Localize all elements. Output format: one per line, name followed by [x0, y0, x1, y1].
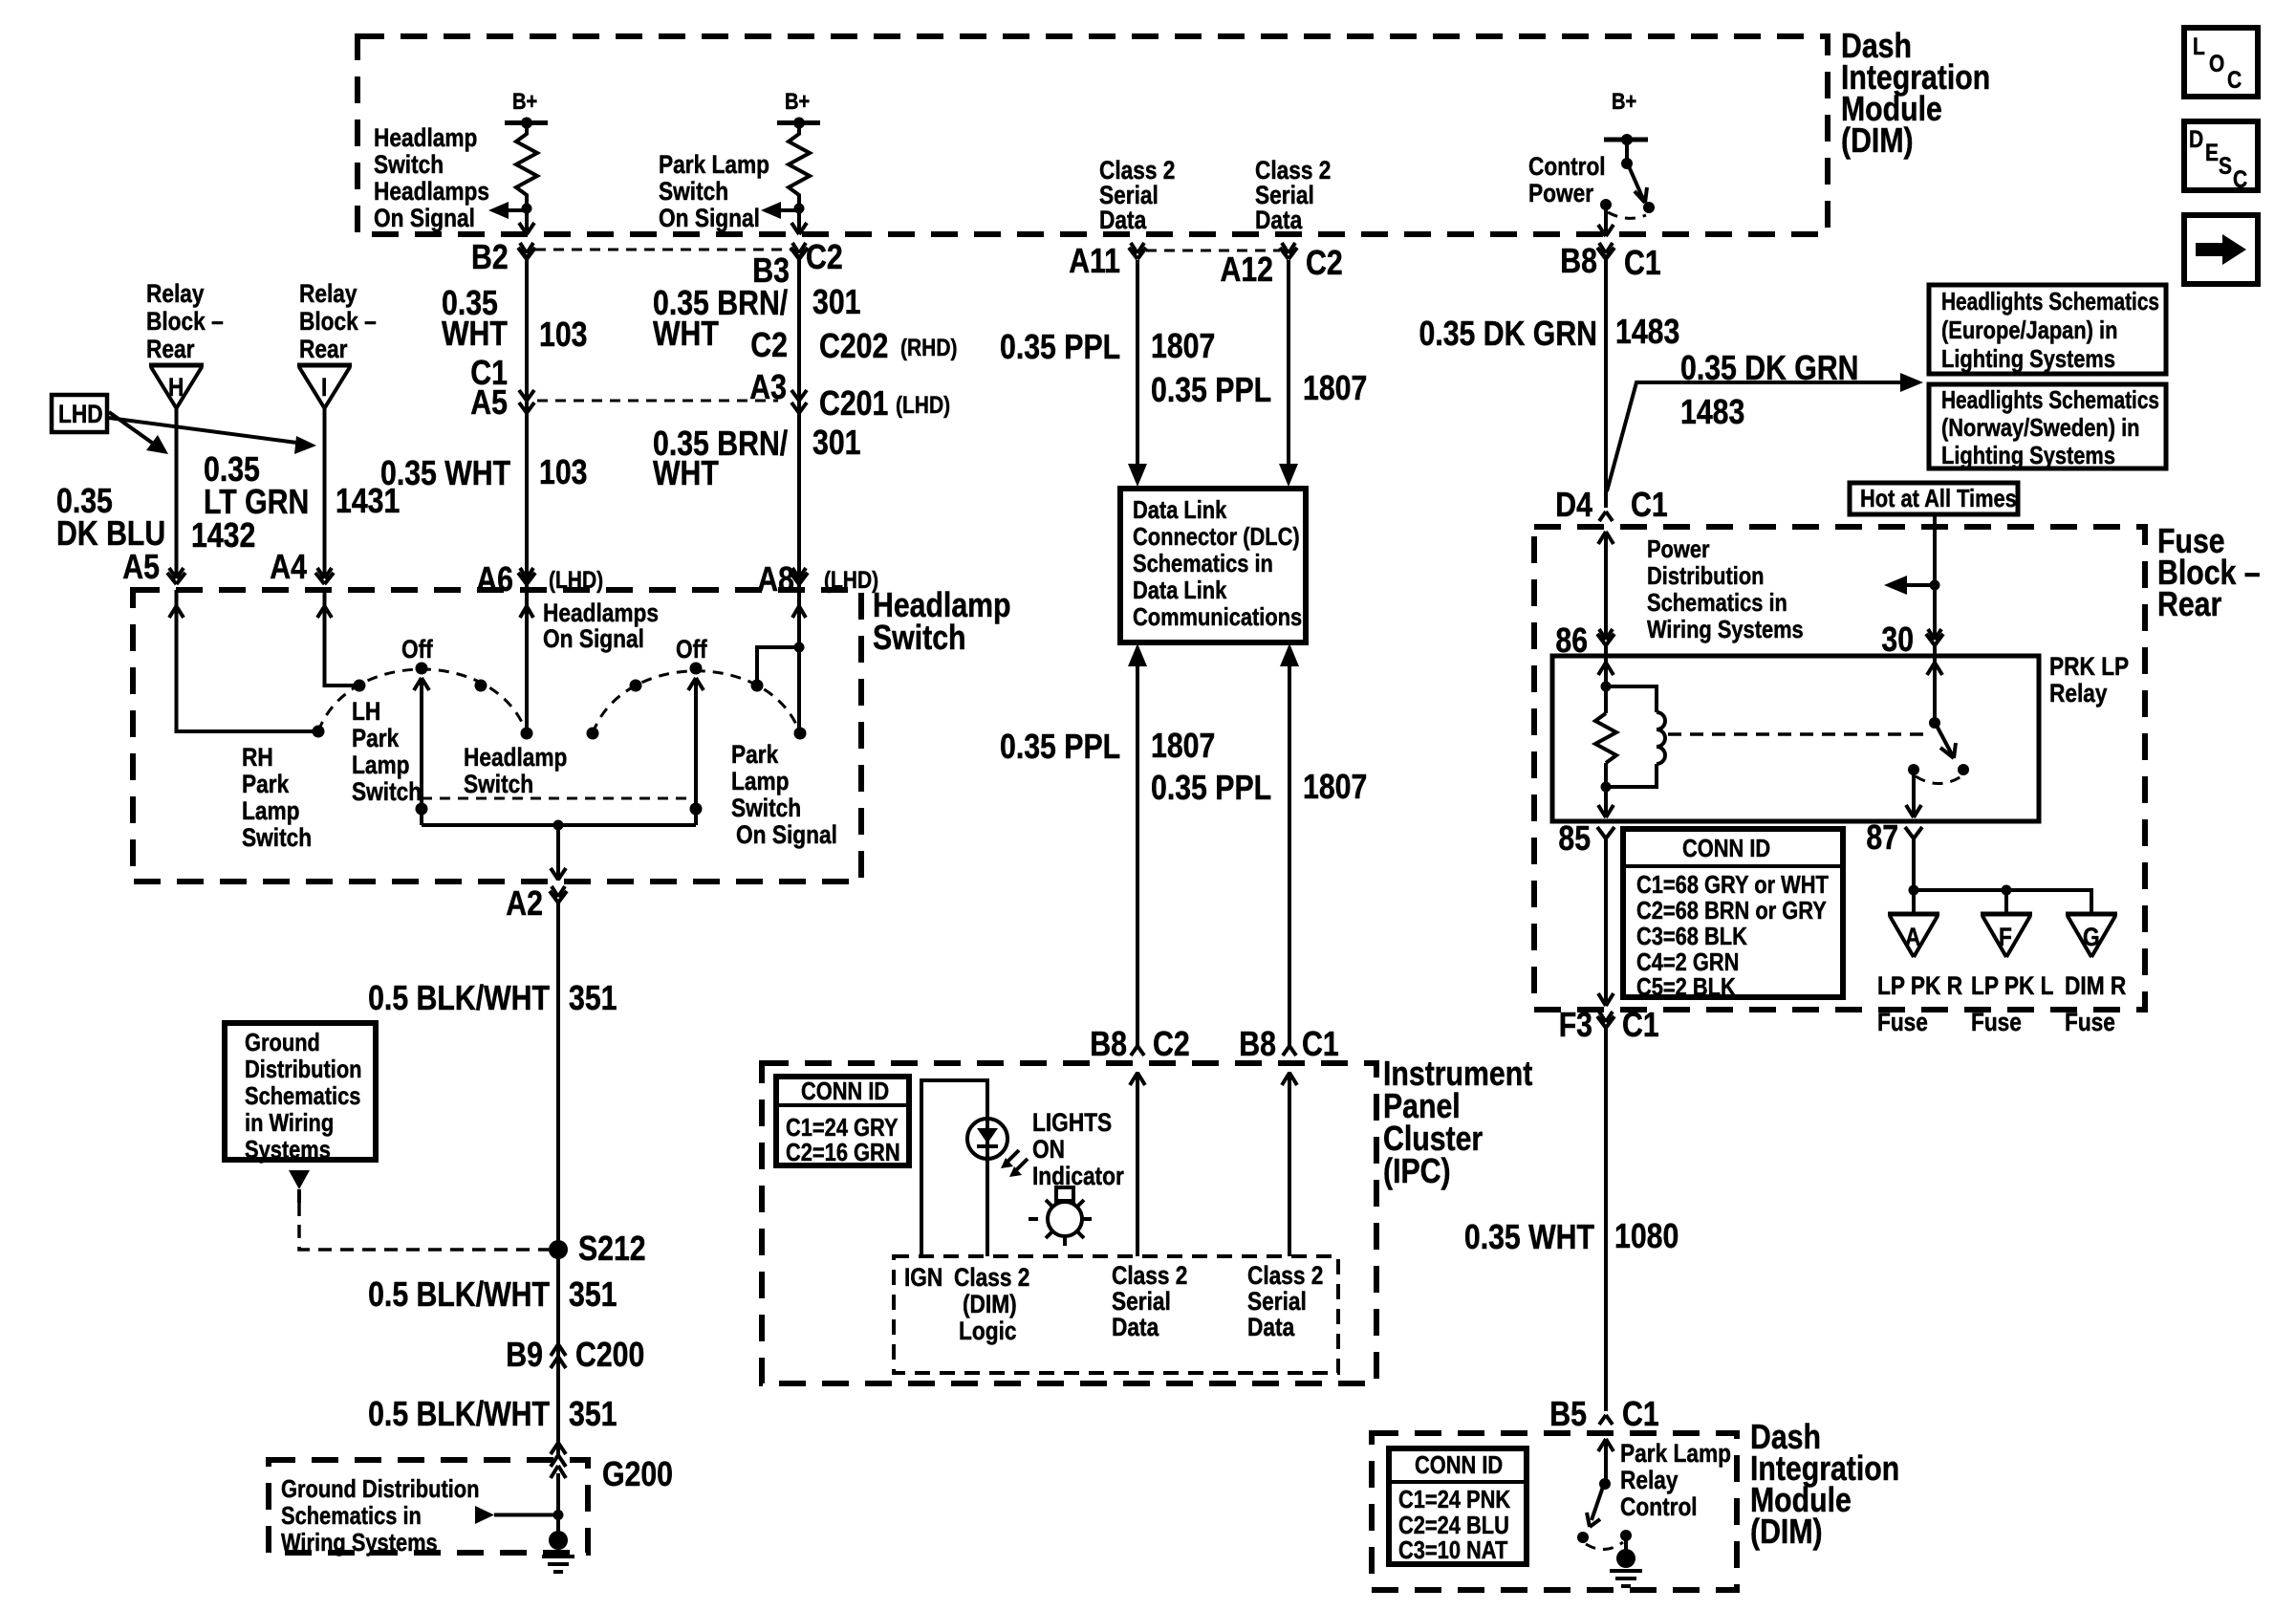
- svg-text:(Europe/Japan) in: (Europe/Japan) in: [1941, 316, 2117, 344]
- svg-text:C1=68 GRY or WHT: C1=68 GRY or WHT: [1636, 870, 1829, 899]
- svg-text:C2=68 BRN or GRY: C2=68 BRN or GRY: [1636, 896, 1827, 925]
- svg-text:301: 301: [812, 423, 861, 462]
- label A4 pin (I wire): [270, 547, 307, 586]
- entry arrow D4 inside fuse block: [1598, 532, 1614, 640]
- svg-text:Off: Off: [401, 635, 434, 664]
- svg-text:Off: Off: [676, 635, 708, 664]
- svg-text:PRK LP: PRK LP: [2049, 652, 2129, 681]
- svg-text:LHD: LHD: [58, 400, 103, 428]
- B+ label 3: [1612, 89, 1636, 115]
- relay output wire: [1906, 770, 1921, 817]
- label LP PK L Fuse: [1971, 971, 2054, 1036]
- svg-text:1432: 1432: [191, 515, 255, 555]
- label 0.35 WHT (circuit 103 upper): [442, 283, 508, 353]
- svg-text:(IPC): (IPC): [1383, 1151, 1451, 1190]
- svg-text:S212: S212: [578, 1229, 646, 1268]
- connector C1/A5 double chevron: [519, 390, 534, 413]
- svg-text:0.35 DK GRN: 0.35 DK GRN: [1680, 348, 1859, 387]
- Headlights Schematics (Europe/Japan) box: [1929, 285, 2166, 374]
- label 0.35 BRN/WHT lower: [653, 424, 788, 492]
- svg-text:Headlamp: Headlamp: [374, 123, 477, 152]
- LHD arrow to I wire: [109, 418, 316, 454]
- dashed run to S212: [299, 1203, 549, 1250]
- svg-text:Headlamp: Headlamp: [464, 743, 567, 772]
- label A5 pin (H wire): [122, 547, 160, 586]
- label Park Lamp Switch On Signal: [659, 150, 769, 232]
- Data Link Connector reference box: [1120, 489, 1306, 642]
- label 301 upper: [812, 282, 861, 321]
- svg-text:Park: Park: [731, 740, 779, 769]
- Hot at All Times box: [1850, 483, 2018, 514]
- svg-text:C1: C1: [1624, 243, 1661, 282]
- label 1432: [191, 515, 255, 555]
- wire A12 to DLC: [1279, 260, 1298, 487]
- svg-text:Data Link: Data Link: [1133, 576, 1227, 604]
- svg-text:E: E: [2205, 140, 2219, 166]
- svg-text:0.5 BLK/WHT: 0.5 BLK/WHT: [368, 1394, 550, 1433]
- park-lamp-on-signal left arrow: [761, 202, 799, 219]
- svg-text:Fuse: Fuse: [2065, 1008, 2115, 1036]
- svg-text:Class 2: Class 2: [1247, 1261, 1323, 1290]
- svg-text:103: 103: [539, 315, 588, 354]
- svg-text:103: 103: [539, 452, 588, 491]
- relay resistor: [1595, 713, 1616, 763]
- label 301 lower: [812, 423, 861, 462]
- label 0.5 BLK/WHT 351 (2): [368, 1274, 617, 1314]
- label 1483 (branch): [1680, 392, 1744, 431]
- svg-text:Switch: Switch: [731, 794, 801, 822]
- svg-text:Lamp: Lamp: [352, 751, 410, 779]
- svg-text:Ground: Ground: [245, 1028, 320, 1056]
- label 0.35 WHT 1080: [1464, 1216, 1679, 1256]
- right rotary arc (park lamp switch): [593, 671, 800, 733]
- connector B2/C1 at DIM output: [518, 243, 535, 259]
- connector A6 at headlamp switch: [518, 568, 535, 584]
- svg-text:in Wiring: in Wiring: [245, 1108, 334, 1137]
- label Class 2 (DIM) Logic: [954, 1263, 1029, 1345]
- connector B9/C200: [551, 1344, 566, 1368]
- svg-text:0.35 DK GRN: 0.35 DK GRN: [1419, 314, 1598, 353]
- label 0.35 DK GRN 1483: [1419, 312, 1680, 353]
- svg-text:Distribution: Distribution: [1647, 561, 1765, 590]
- svg-text:30: 30: [1881, 620, 1914, 659]
- svg-text:B9: B9: [506, 1335, 543, 1374]
- DESC reference box: [2184, 121, 2258, 193]
- label B8 C1 top: [1560, 241, 1660, 282]
- G200 box text: [281, 1474, 480, 1557]
- label 0.35 PPL 1807 (lower-right pair): [1151, 767, 1367, 807]
- wire from I to A4: [323, 408, 327, 578]
- right-arrow reference box: [2184, 215, 2258, 284]
- ground symbol bottom DIM: [1610, 1535, 1642, 1586]
- wire to box edge with exit chevron 2: [791, 208, 807, 234]
- svg-text:LT GRN: LT GRN: [204, 482, 309, 521]
- label Off right: [676, 635, 708, 664]
- entry chevron A8 wire: [792, 606, 806, 618]
- svg-text:Connector (DLC): Connector (DLC): [1133, 522, 1300, 551]
- label PRK LP Relay: [2049, 652, 2129, 708]
- label C1/A5 pins: [470, 353, 508, 422]
- splice S212: [549, 1240, 568, 1259]
- resistor (park lamp switch pull-up): [789, 122, 810, 207]
- svg-text:1483: 1483: [1680, 392, 1744, 431]
- svg-text:LIGHTS: LIGHTS: [1032, 1108, 1112, 1137]
- svg-text:0.35 PPL: 0.35 PPL: [1151, 370, 1271, 409]
- relay contacts: [1908, 764, 1969, 784]
- label Class 2 Serial Data (right): [1247, 1261, 1323, 1341]
- svg-text:351: 351: [569, 978, 617, 1017]
- Headlamp Switch dashed box: [133, 590, 861, 882]
- lamp symbol: [1029, 1187, 1092, 1246]
- svg-text:Distribution: Distribution: [245, 1055, 362, 1083]
- relay block rear label H: [146, 279, 224, 363]
- label LH Park Lamp Switch: [352, 697, 422, 806]
- connector 86: [1555, 620, 1614, 660]
- fuse triangle G: [2066, 914, 2117, 957]
- relay switch 30 entry arrow: [1927, 645, 1942, 723]
- svg-text:Lamp: Lamp: [731, 767, 790, 795]
- relay block rear triangle H: [149, 365, 204, 408]
- svg-text:Lighting Systems: Lighting Systems: [1941, 441, 2115, 469]
- label 0.35 PPL 1807 (upper pair): [1000, 326, 1215, 366]
- svg-text:Relay: Relay: [1620, 1466, 1679, 1494]
- connector B8/C1 at IPC: [1239, 1024, 1338, 1063]
- svg-text:WHT: WHT: [442, 314, 508, 353]
- svg-text:On Signal: On Signal: [374, 204, 475, 232]
- svg-text:1080: 1080: [1614, 1216, 1679, 1255]
- svg-text:CONN ID: CONN ID: [801, 1077, 889, 1105]
- connector B8/C1 top: [1597, 243, 1614, 259]
- svg-text:C1: C1: [1622, 1005, 1659, 1044]
- svg-text:B8: B8: [1560, 241, 1597, 280]
- connector B8/C2 at IPC: [1090, 1024, 1189, 1063]
- svg-text:(DIM): (DIM): [1750, 1512, 1823, 1551]
- label B9 C200: [506, 1335, 644, 1374]
- svg-text:CONN ID: CONN ID: [1415, 1450, 1503, 1479]
- svg-text:C3=10 NAT: C3=10 NAT: [1398, 1535, 1507, 1564]
- svg-text:Control: Control: [1528, 152, 1606, 181]
- label S212: [578, 1229, 646, 1268]
- Fuse Block title: [2157, 521, 2261, 623]
- connector at G200: [551, 1443, 566, 1467]
- svg-text:Park Lamp: Park Lamp: [659, 150, 769, 179]
- B+ feed bar 1: [505, 118, 548, 129]
- label A2: [506, 883, 543, 923]
- branch wire to headlights schematics: [1607, 373, 1923, 491]
- svg-text:C: C: [2233, 166, 2247, 193]
- svg-text:Hot at All Times: Hot at All Times: [1860, 484, 2017, 512]
- svg-text:B+: B+: [785, 89, 810, 115]
- label C2 top: [806, 237, 843, 276]
- entry arrow B8/C2 inside IPC: [1130, 1072, 1145, 1256]
- control power switch: [1600, 140, 1655, 218]
- label 0.35 DK BLU: [56, 481, 165, 553]
- svg-text:Headlamps: Headlamps: [374, 177, 489, 206]
- junction dot below resistor 2: [794, 204, 805, 214]
- wire B2 to headlamp-on contact: [525, 254, 529, 733]
- wire A11 to DLC: [1128, 260, 1147, 487]
- svg-text:Control: Control: [1620, 1492, 1698, 1521]
- svg-text:F: F: [1999, 923, 2012, 951]
- wire I inside to LH contact: [325, 590, 360, 686]
- IPC CONN ID table: [776, 1077, 909, 1166]
- label 1431: [336, 481, 400, 520]
- label Park Lamp Switch On Signal: [731, 740, 837, 849]
- svg-text:(LHD): (LHD): [896, 392, 950, 419]
- svg-text:85: 85: [1558, 818, 1591, 858]
- wire B3 to park contact: [797, 254, 801, 733]
- svg-text:1807: 1807: [1303, 368, 1367, 407]
- svg-text:0.35 PPL: 0.35 PPL: [1000, 727, 1120, 766]
- label IGN: [904, 1263, 942, 1292]
- svg-text:1807: 1807: [1151, 326, 1215, 365]
- svg-text:Ground Distribution: Ground Distribution: [281, 1474, 480, 1503]
- svg-text:Relay: Relay: [146, 279, 205, 308]
- IGN / LED bracket wires: [921, 1080, 987, 1256]
- svg-text:C1=24 PNK: C1=24 PNK: [1398, 1485, 1510, 1513]
- feed branch left arrow: [1884, 576, 1935, 595]
- svg-text:Wiring Systems: Wiring Systems: [1647, 615, 1804, 643]
- svg-text:C1: C1: [1302, 1024, 1339, 1063]
- svg-text:1483: 1483: [1615, 312, 1679, 351]
- svg-text:C2=16 GRN: C2=16 GRN: [786, 1138, 900, 1166]
- fuse block CONN ID table: [1623, 829, 1843, 1001]
- label 0.35 WHT (circuit 103 lower): [380, 453, 510, 492]
- relay actuation dashed link: [1668, 732, 1925, 736]
- svg-text:Switch: Switch: [242, 823, 312, 852]
- label Headlamp Switch inside: [464, 743, 567, 798]
- fuse triangle A: [1888, 914, 1939, 957]
- svg-text:I: I: [321, 373, 327, 402]
- svg-text:351: 351: [569, 1394, 617, 1433]
- svg-text:Indicator: Indicator: [1032, 1162, 1124, 1190]
- left rotary arc (headlamp switch): [318, 669, 527, 733]
- svg-text:Lamp: Lamp: [242, 796, 300, 825]
- wiper common bus: [422, 820, 696, 831]
- svg-text:Serial: Serial: [1112, 1287, 1171, 1316]
- svg-text:D4: D4: [1555, 485, 1592, 524]
- svg-text:C2: C2: [1306, 243, 1343, 282]
- svg-text:C2: C2: [750, 325, 788, 364]
- resistor (headlamp switch pull-up): [516, 122, 537, 207]
- svg-text:L: L: [2193, 33, 2205, 60]
- svg-text:Switch: Switch: [873, 618, 966, 657]
- svg-text:1807: 1807: [1151, 726, 1215, 765]
- B+ label 1: [512, 89, 537, 115]
- svg-text:Power: Power: [1528, 179, 1594, 207]
- label Class 2 Serial Data (A11): [1099, 156, 1175, 234]
- svg-text:Switch: Switch: [374, 150, 444, 179]
- A8 branch to park contact: [757, 642, 805, 686]
- svg-text:Headlamps: Headlamps: [543, 599, 659, 627]
- svg-text:(RHD): (RHD): [900, 335, 958, 361]
- label 0.35 DK GRN (branch): [1680, 348, 1859, 387]
- connector A11: [1129, 243, 1146, 259]
- relay block rear triangle I: [297, 365, 352, 408]
- LED lights-on indicator: [967, 1119, 1028, 1177]
- svg-text:LP PK L: LP PK L: [1971, 971, 2054, 1000]
- connector B5/C1: [1549, 1394, 1658, 1433]
- label Class 2 Serial Data (A12): [1255, 156, 1331, 234]
- svg-text:A5: A5: [122, 547, 160, 586]
- svg-text:Relay: Relay: [299, 279, 357, 308]
- fuse triangle F: [1981, 914, 2032, 957]
- relay block rear label I: [299, 279, 377, 363]
- label A3/C201 (LHD): [749, 367, 950, 423]
- label A12: [1221, 250, 1274, 289]
- connector A2: [550, 886, 567, 903]
- DIM title text: [1841, 26, 1990, 160]
- svg-text:Switch: Switch: [659, 177, 728, 206]
- wire 87 to fuses: [1909, 838, 2092, 914]
- bottom DIM title: [1750, 1417, 1899, 1551]
- headlamp switch wiper: [414, 678, 429, 825]
- svg-text:0.35 PPL: 0.35 PPL: [1151, 768, 1271, 807]
- svg-text:IGN: IGN: [904, 1263, 942, 1292]
- label Headlamp Switch Headlamps On Signal: [374, 123, 489, 232]
- svg-text:0.35 WHT: 0.35 WHT: [1464, 1217, 1594, 1256]
- G200 dashed box: [269, 1460, 588, 1553]
- svg-text:Headlights Schematics: Headlights Schematics: [1941, 385, 2159, 414]
- LHD callout box: [52, 395, 107, 432]
- svg-text:WHT: WHT: [653, 453, 719, 492]
- A2 exit wire with chevron: [551, 825, 566, 881]
- left arc contact dots: [313, 663, 533, 740]
- svg-text:RH: RH: [242, 743, 273, 772]
- svg-text:B+: B+: [512, 89, 537, 115]
- svg-text:0.35 WHT: 0.35 WHT: [380, 453, 510, 492]
- hot at all times feed wire: [1930, 514, 1940, 636]
- label C2/C202 (RHD): [750, 325, 957, 365]
- headlamps-on-signal left arrow: [488, 202, 527, 219]
- label LP PK R Fuse: [1877, 971, 1962, 1036]
- relay switch arm: [1929, 717, 1956, 758]
- wire H inside to RH contact: [177, 590, 319, 731]
- svg-text:Fuse: Fuse: [1877, 1008, 1928, 1036]
- label G200: [602, 1454, 673, 1493]
- control power wire to edge with exit chevron: [1598, 205, 1614, 236]
- svg-text:H: H: [168, 373, 184, 402]
- svg-text:Data Link: Data Link: [1133, 495, 1227, 524]
- svg-text:C1: C1: [1622, 1394, 1659, 1433]
- label A8 pin: [757, 559, 878, 599]
- connector A4 at headlamp switch: [315, 568, 334, 584]
- label 0.35 LT GRN: [204, 449, 309, 521]
- label A11: [1069, 241, 1120, 280]
- control power B+ bar: [1604, 134, 1648, 145]
- svg-text:C3=68 BLK: C3=68 BLK: [1636, 922, 1747, 950]
- Headlamp Switch title: [873, 585, 1011, 657]
- svg-text:(DIM): (DIM): [963, 1290, 1017, 1318]
- svg-text:1431: 1431: [336, 481, 400, 520]
- svg-text:LH: LH: [352, 697, 380, 726]
- ground pointer arrow inside G200: [475, 1506, 564, 1524]
- svg-text:Rear: Rear: [299, 335, 348, 363]
- label 0.35 PPL 1807 (lower-left pair): [1000, 726, 1215, 766]
- junction dot below resistor 1: [522, 204, 532, 214]
- label A6 pin: [476, 559, 603, 599]
- svg-text:A5: A5: [470, 382, 508, 422]
- coil wire 86 entry arrow: [1598, 645, 1614, 713]
- svg-text:Switch: Switch: [352, 777, 422, 806]
- label 0.5 BLK/WHT 351 (1): [368, 978, 617, 1017]
- svg-text:Block –: Block –: [299, 307, 377, 336]
- dashed link A11-A12: [1146, 250, 1280, 252]
- svg-text:B8: B8: [1239, 1024, 1276, 1063]
- svg-text:B8: B8: [1090, 1024, 1127, 1063]
- svg-text:C: C: [2227, 67, 2242, 94]
- svg-text:C201: C201: [819, 383, 888, 423]
- label 103 lower: [539, 452, 588, 491]
- svg-text:Lighting Systems: Lighting Systems: [1941, 344, 2115, 373]
- connector A5 at headlamp switch: [167, 568, 185, 584]
- svg-text:B2: B2: [471, 237, 509, 276]
- svg-text:Logic: Logic: [959, 1317, 1017, 1345]
- svg-text:On Signal: On Signal: [659, 204, 760, 232]
- svg-text:Data: Data: [1112, 1313, 1159, 1341]
- svg-text:C2: C2: [806, 237, 843, 276]
- relay coil: [1606, 686, 1665, 787]
- LOC reference box: [2184, 28, 2258, 97]
- svg-text:87: 87: [1866, 817, 1898, 857]
- svg-text:Class 2: Class 2: [954, 1263, 1029, 1292]
- label 0.35 BRN/WHT upper: [653, 283, 788, 353]
- svg-text:LP PK R: LP PK R: [1877, 971, 1962, 1000]
- dashed link A5-C201: [537, 400, 778, 403]
- svg-text:A: A: [1905, 923, 1920, 951]
- connector D4/C1: [1555, 485, 1667, 524]
- label 0.35 PPL 1807 (second pair): [1151, 368, 1367, 409]
- svg-text:Park: Park: [352, 724, 400, 752]
- svg-text:Data: Data: [1099, 206, 1147, 234]
- svg-text:0.5 BLK/WHT: 0.5 BLK/WHT: [368, 1274, 550, 1314]
- PRK LP Relay box: [1552, 656, 2039, 821]
- svg-text:C1: C1: [1631, 485, 1668, 524]
- svg-text:Class 2: Class 2: [1112, 1261, 1187, 1290]
- LHD arrow to H wire: [109, 412, 168, 454]
- label Control Power: [1528, 152, 1606, 207]
- ground entry arrow: [551, 1466, 566, 1541]
- connector A8 at headlamp switch: [791, 568, 808, 584]
- bottom DIM CONN ID table: [1389, 1448, 1527, 1564]
- entry chevron I wire: [317, 606, 332, 618]
- wire to box edge with exit chevron: [519, 208, 534, 234]
- svg-text:O: O: [2209, 51, 2224, 77]
- svg-text:B5: B5: [1549, 1394, 1587, 1433]
- label 103 upper: [539, 315, 588, 354]
- wire 85 to F3: [1598, 838, 1614, 1006]
- svg-text:Park: Park: [242, 770, 290, 798]
- svg-text:DIM R: DIM R: [2065, 971, 2126, 1000]
- entry chevron H wire: [169, 606, 184, 618]
- label 0.5 BLK/WHT 351 (3): [368, 1394, 617, 1433]
- svg-text:Schematics in: Schematics in: [1133, 549, 1273, 577]
- mechanical link dashed: [422, 797, 696, 800]
- svg-text:Data: Data: [1255, 206, 1303, 234]
- svg-text:S: S: [2219, 153, 2232, 180]
- svg-text:C200: C200: [575, 1335, 644, 1374]
- svg-text:(Norway/Sweden) in: (Norway/Sweden) in: [1941, 413, 2140, 442]
- B+ label 2: [785, 89, 810, 115]
- svg-text:A3: A3: [749, 367, 787, 406]
- park lamp switch wiper: [688, 678, 704, 825]
- connector 85: [1558, 818, 1614, 858]
- svg-text:G200: G200: [602, 1454, 673, 1493]
- svg-text:1807: 1807: [1303, 767, 1367, 806]
- Dash Integration Module (DIM) top dashed box: [357, 36, 1828, 234]
- svg-text:On Signal: On Signal: [543, 624, 644, 653]
- label LIGHTS ON Indicator: [1032, 1108, 1124, 1190]
